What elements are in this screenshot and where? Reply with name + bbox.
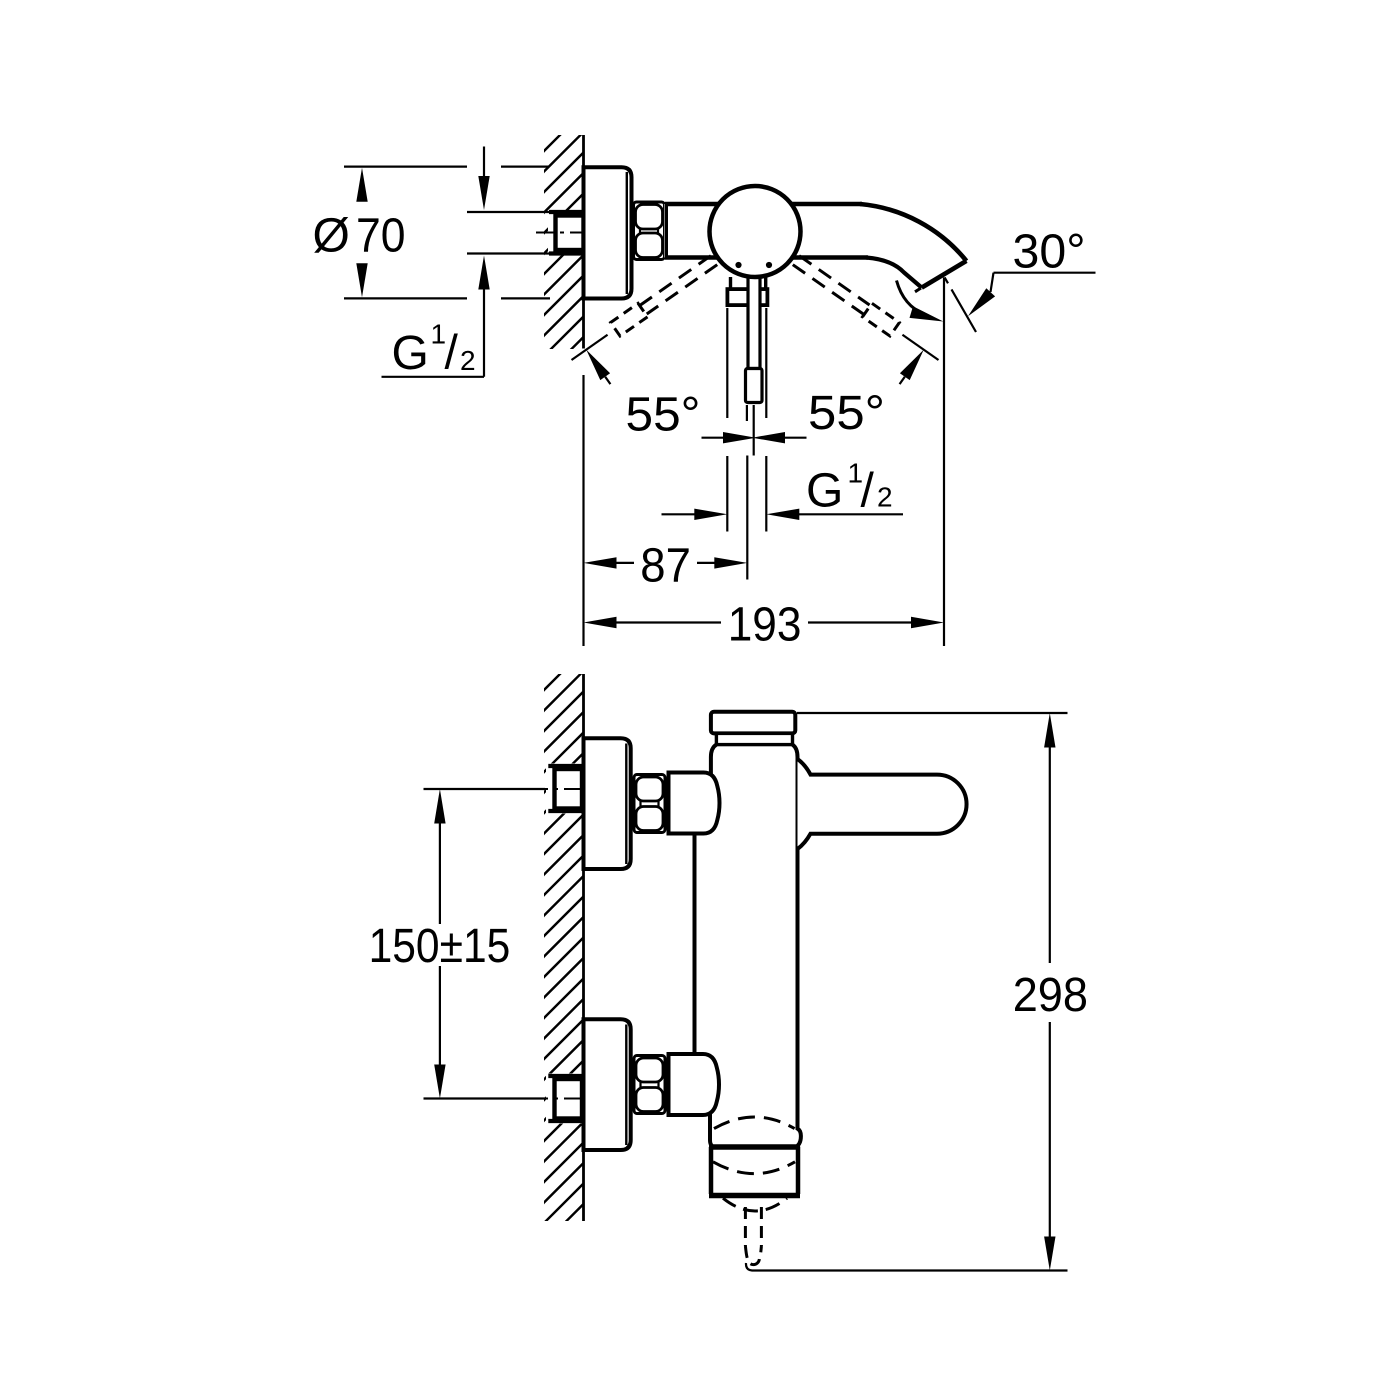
dimension 87 [584, 557, 617, 568]
upper inlet pipe bottom view [546, 764, 584, 814]
body neck ring [716, 733, 792, 744]
wall line bottom view [582, 674, 585, 1221]
body tube top view [665, 204, 898, 258]
dim Ø70 arrow up [356, 168, 367, 202]
upper check valve dome [669, 773, 720, 834]
svg-text:55°: 55° [626, 389, 701, 442]
upper escutcheon [584, 738, 631, 869]
outlet cup [711, 1147, 798, 1196]
body cap [711, 712, 795, 734]
hex nut top view [634, 202, 665, 260]
lower square fitting [555, 1079, 583, 1119]
handle straight top view [729, 277, 732, 289]
dim G1/2 pipe arrow upper [483, 147, 485, 177]
mixer sphere top view [710, 186, 801, 277]
spout top view [860, 204, 966, 261]
handle dashed position right (55deg) [791, 253, 943, 366]
hidden outlet tube [745, 1207, 761, 1265]
hidden dome arc above cup [714, 1117, 795, 1129]
lower hex nut [634, 1056, 665, 1114]
dim 55deg arrow left [586, 350, 610, 380]
dimension 193 [584, 617, 617, 628]
lower escutcheon [584, 1019, 631, 1150]
svg-text:70: 70 [356, 209, 406, 262]
wall hatching top view [540, 105, 590, 381]
lower pipe centerline [526, 1098, 584, 1100]
dimension 150±15 [424, 788, 546, 790]
svg-text:/: / [445, 327, 459, 380]
svg-text:Ø: Ø [313, 209, 350, 262]
svg-text:2: 2 [877, 482, 893, 513]
dimension Ø70 [344, 167, 550, 299]
svg-text:/: / [861, 465, 875, 518]
svg-text:G: G [392, 327, 429, 380]
body outline [711, 745, 717, 776]
30deg slant line [945, 277, 976, 332]
lower check valve dome [669, 1054, 720, 1115]
wall extension line below [582, 375, 584, 646]
handle side view [798, 759, 967, 849]
dim G1/2 pipe arrow lower + leader [478, 256, 489, 290]
inlet pipe top view [548, 210, 584, 256]
upper hex nut [634, 775, 665, 833]
svg-text:298: 298 [1013, 969, 1088, 1022]
dim 30deg arrow [968, 288, 995, 316]
dim 55deg arrow right [900, 350, 924, 380]
dim Ø70 arrow down [356, 263, 367, 297]
upper square fitting [555, 769, 583, 809]
handle dashed position left (55deg) [567, 253, 719, 366]
svg-text:193: 193 [728, 599, 802, 652]
dimension 298 [797, 712, 1068, 714]
pipe centerline top view [536, 232, 586, 234]
inlet square fitting top view [556, 216, 584, 251]
svg-text:2: 2 [460, 345, 476, 376]
dim 55deg center arrows [723, 432, 756, 443]
dimension G1/2 handle [726, 308, 728, 418]
hidden arc inside cup [713, 1162, 795, 1174]
svg-text:55°: 55° [808, 387, 885, 440]
wall hatching bottom view [540, 644, 590, 1248]
hidden arc below cup [723, 1198, 787, 1211]
spout extension line [943, 277, 945, 646]
spout swing arc arrow [897, 281, 926, 315]
svg-text:87: 87 [640, 540, 691, 593]
lower inlet pipe bottom view [546, 1074, 584, 1124]
wall line top view [582, 135, 585, 349]
svg-text:150±15: 150±15 [369, 920, 511, 973]
upper pipe centerline [526, 788, 584, 790]
30deg leader and arrow [994, 272, 1096, 274]
escutcheon top view [584, 167, 632, 298]
svg-text:30°: 30° [1013, 226, 1086, 279]
svg-text:G: G [806, 465, 843, 518]
handle centerline [753, 405, 755, 456]
